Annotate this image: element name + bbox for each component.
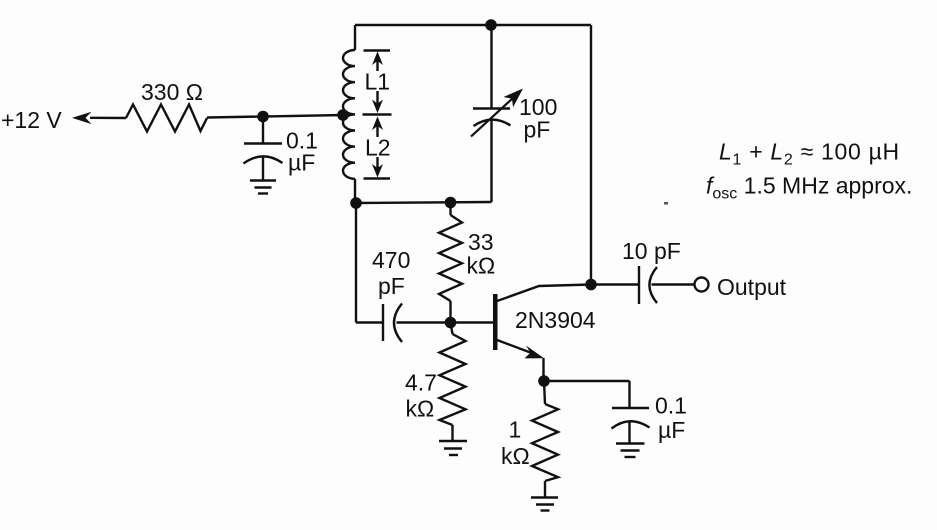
svg-text:33: 33 bbox=[468, 229, 494, 255]
svg-text:330 Ω: 330 Ω bbox=[141, 79, 203, 105]
svg-text:1: 1 bbox=[509, 417, 522, 443]
svg-text:Output: Output bbox=[717, 274, 787, 300]
svg-text:pF: pF bbox=[378, 273, 405, 299]
svg-text:L2: L2 bbox=[365, 135, 391, 161]
svg-text:kΩ: kΩ bbox=[406, 396, 435, 422]
svg-text:0.1: 0.1 bbox=[655, 393, 687, 419]
svg-text:kΩ: kΩ bbox=[467, 253, 496, 279]
svg-text:4.7: 4.7 bbox=[405, 370, 437, 396]
svg-text:L1: L1 bbox=[365, 69, 391, 95]
svg-text:µF: µF bbox=[658, 417, 685, 443]
svg-text:pF: pF bbox=[524, 117, 551, 143]
svg-text:kΩ: kΩ bbox=[501, 443, 530, 469]
svg-text:L1 + L2 ≈ 100 µH: L1 + L2 ≈ 100 µH bbox=[719, 139, 900, 169]
svg-text:2N3904: 2N3904 bbox=[515, 307, 596, 333]
svg-text:fosc 1.5 MHz approx.: fosc 1.5 MHz approx. bbox=[706, 173, 912, 203]
svg-text:µF: µF bbox=[288, 150, 315, 176]
svg-text:470: 470 bbox=[372, 247, 410, 273]
svg-text:10 pF: 10 pF bbox=[622, 238, 681, 264]
svg-text:+12 V: +12 V bbox=[1, 107, 62, 133]
